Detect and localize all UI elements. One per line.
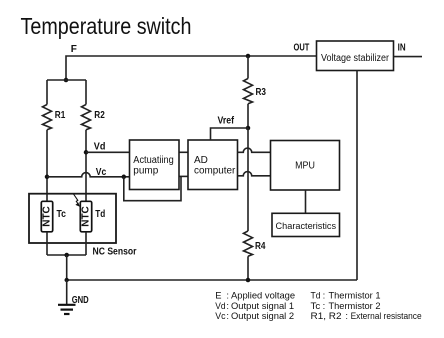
node NTC join xyxy=(64,253,69,258)
wire Vc with hop over R2 line xyxy=(47,173,130,177)
node Vc xyxy=(45,175,50,180)
node Vref junction xyxy=(246,126,251,131)
wire top connector R1-R2 xyxy=(47,79,86,81)
wire NTC bottoms join xyxy=(47,232,86,255)
svg-text:Vc: Vc xyxy=(215,310,226,321)
svg-text:Vd: Vd xyxy=(94,142,106,153)
svg-text::: : xyxy=(323,300,326,311)
svg-text:Tc: Tc xyxy=(311,300,321,311)
thermistor Tc NTC box xyxy=(41,201,52,232)
actuating pump box xyxy=(130,140,180,190)
svg-text:E: E xyxy=(215,289,221,300)
svg-text:External resistance: External resistance xyxy=(351,310,422,321)
wire Vref to AD computer xyxy=(211,128,249,140)
node Vc junction at pump input xyxy=(122,175,127,180)
resistor R3 xyxy=(244,79,253,104)
svg-text:Td: Td xyxy=(311,289,321,300)
svg-text:NTC: NTC xyxy=(81,206,92,227)
svg-text:Thermistor 1: Thermistor 1 xyxy=(329,289,381,300)
svg-text:R2: R2 xyxy=(94,110,105,121)
svg-text:NC Sensor: NC Sensor xyxy=(93,247,137,258)
MPU box xyxy=(271,141,340,191)
wire R2 lower lead to NTC Td xyxy=(85,130,87,202)
svg-text:NTC: NTC xyxy=(42,206,53,227)
svg-text:Vref: Vref xyxy=(218,116,235,127)
wire MPU to characteristics xyxy=(305,190,307,213)
wire Vd to actuating pump xyxy=(86,151,130,153)
svg-text:IN: IN xyxy=(398,43,406,54)
svg-text:Actuatiing: Actuatiing xyxy=(133,155,174,166)
svg-text:Output signal 2: Output signal 2 xyxy=(231,310,294,321)
resistor R2 xyxy=(82,105,91,130)
wire bottom rail xyxy=(67,279,357,281)
svg-text:Td: Td xyxy=(95,209,105,220)
wire pump to AD computer upper link xyxy=(179,151,188,153)
svg-text:Temperature switch: Temperature switch xyxy=(21,13,192,39)
wire R3-R4 column xyxy=(247,128,249,231)
characteristics box xyxy=(272,213,340,236)
wire join to ground rail xyxy=(66,255,68,280)
wire R4 lower lead xyxy=(247,256,249,280)
svg-text:AD: AD xyxy=(194,155,208,166)
svg-text:Tc: Tc xyxy=(57,209,67,220)
svg-text:R1, R2: R1, R2 xyxy=(311,310,342,321)
svg-text:MPU: MPU xyxy=(295,161,315,172)
wire R2 upper lead xyxy=(85,80,87,105)
svg-text:F: F xyxy=(71,44,77,55)
node Vd xyxy=(84,150,89,155)
resistor R1 xyxy=(43,105,52,130)
svg-text:OUT: OUT xyxy=(294,43,310,54)
wire F top rail xyxy=(66,56,317,80)
svg-text:R4: R4 xyxy=(255,241,266,252)
node junction F xyxy=(64,78,69,83)
wire AD to MPU upper with hop xyxy=(238,148,271,152)
wire IN lead xyxy=(394,56,423,58)
wire R3 lower lead xyxy=(247,104,249,128)
svg-text:pump: pump xyxy=(133,166,158,177)
voltage stabilizer box xyxy=(317,41,394,71)
svg-text:R3: R3 xyxy=(256,87,267,98)
svg-text::: : xyxy=(345,310,348,321)
svg-text:Thermistor 2: Thermistor 2 xyxy=(329,300,381,311)
wire R3 upper lead xyxy=(247,56,249,79)
node junction R4 bottom xyxy=(246,278,251,283)
svg-text:Characteristics: Characteristics xyxy=(276,221,337,232)
svg-text:Output signal 1: Output signal 1 xyxy=(231,300,294,311)
node GND junction xyxy=(65,278,69,282)
NC sensor box xyxy=(29,194,116,243)
svg-text:Voltage stabilizer: Voltage stabilizer xyxy=(321,53,390,64)
thermistor Td NTC box xyxy=(80,201,91,232)
svg-text::: : xyxy=(323,289,326,300)
wire pump to AD computer lower link xyxy=(179,175,188,177)
wire R1 upper lead xyxy=(46,80,48,105)
resistor R4 xyxy=(244,231,253,256)
arrow into thermistor Td xyxy=(74,194,79,204)
svg-text::: : xyxy=(226,300,229,311)
ground xyxy=(66,280,68,305)
svg-text::: : xyxy=(226,289,229,300)
svg-text:R1: R1 xyxy=(55,110,66,121)
AD computer box xyxy=(188,140,238,190)
node junction R3 top xyxy=(246,54,251,59)
wire R1 lower lead to NTC Tc xyxy=(46,130,48,202)
svg-text:computer: computer xyxy=(194,166,236,177)
svg-text::: : xyxy=(226,310,229,321)
wire Vc routed under pump to AD computer xyxy=(124,176,181,200)
wire AD to MPU lower with hop xyxy=(238,172,271,176)
svg-text:Vd: Vd xyxy=(215,300,225,311)
svg-text:Applied voltage: Applied voltage xyxy=(231,289,295,300)
wire stabilizer ground drop xyxy=(356,71,358,281)
